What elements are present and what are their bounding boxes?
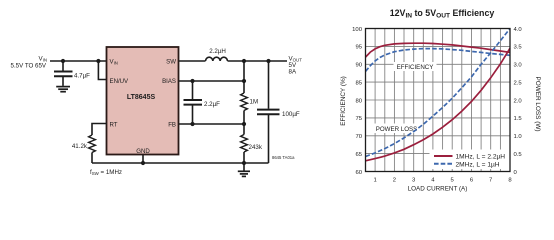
legend box bbox=[430, 150, 510, 170]
svg-text:2.2µH: 2.2µH bbox=[209, 48, 226, 55]
capacitor C2 2.2uF bbox=[184, 81, 221, 124]
wire FB bbox=[179, 123, 245, 125]
svg-text:8: 8 bbox=[508, 177, 512, 183]
svg-text:GND: GND bbox=[136, 148, 150, 155]
svg-text:243k: 243k bbox=[249, 144, 263, 151]
legend entries bbox=[434, 154, 505, 169]
svg-text:2.2µF: 2.2µF bbox=[204, 101, 220, 108]
chart EFFICIENCY label bbox=[394, 62, 437, 71]
svg-text:1.0: 1.0 bbox=[514, 134, 523, 140]
svg-text:60: 60 bbox=[355, 170, 362, 176]
node junction output cap bbox=[266, 59, 270, 63]
curve power loss 2MHz dashed bbox=[366, 29, 511, 157]
axis bottom tick labels bbox=[373, 177, 512, 183]
svg-text:12VIN to 5VOUT Efficiency: 12VIN to 5VOUT Efficiency bbox=[390, 8, 495, 20]
wire resistor to ground rail bbox=[91, 153, 93, 164]
node junction EN/UV tie to VIN bbox=[96, 59, 100, 63]
resistor R2 243k bbox=[241, 135, 263, 153]
chart frame bbox=[366, 29, 511, 172]
node junction BIAS cap bbox=[190, 79, 194, 83]
svg-text:LT8645S: LT8645S bbox=[127, 94, 156, 101]
svg-text:4.7µF: 4.7µF bbox=[74, 73, 90, 80]
svg-text:90: 90 bbox=[355, 63, 362, 69]
wire ground rail bbox=[92, 162, 269, 164]
svg-text:EN/UV: EN/UV bbox=[110, 78, 130, 85]
svg-text:POWER LOSS: POWER LOSS bbox=[376, 126, 418, 133]
axis right tick labels bbox=[514, 27, 523, 176]
svg-text:2: 2 bbox=[393, 177, 396, 183]
svg-text:100µF: 100µF bbox=[282, 111, 300, 118]
svg-text:75: 75 bbox=[355, 116, 362, 122]
wire FB node down bbox=[243, 124, 245, 135]
svg-text:80: 80 bbox=[355, 98, 362, 104]
svg-text:6: 6 bbox=[470, 177, 474, 183]
resistor R1 1M bbox=[241, 93, 259, 111]
svg-text:100: 100 bbox=[352, 27, 363, 33]
svg-text:fSW = 1MHz: fSW = 1MHz bbox=[90, 169, 122, 176]
op-amp U1 LT8645S box bbox=[107, 47, 179, 155]
svg-text:3: 3 bbox=[412, 177, 416, 183]
wire 1M to FB node bbox=[243, 111, 245, 125]
axis left tick labels bbox=[352, 27, 363, 176]
capacitor C1 4.7uF bbox=[54, 61, 90, 86]
ground rail symbol bbox=[238, 163, 250, 176]
node VOUT output label bbox=[289, 56, 303, 76]
node junction rail ground bbox=[242, 161, 246, 165]
node junction at input cap bbox=[61, 59, 65, 63]
chart POWER LOSS label bbox=[375, 124, 420, 134]
node junction divider top bbox=[242, 59, 246, 63]
inductor L1 2.2uH bbox=[206, 48, 228, 61]
resistor R3 41.2k bbox=[72, 135, 96, 153]
node junction GND drop bbox=[141, 161, 145, 165]
svg-text:0.5: 0.5 bbox=[514, 152, 523, 158]
svg-text:SW: SW bbox=[166, 58, 176, 65]
curve efficiency 2MHz dashed bbox=[366, 49, 511, 72]
wire RT to resistor bbox=[92, 124, 107, 136]
curve efficiency 1MHz solid bbox=[366, 43, 511, 57]
svg-text:RT: RT bbox=[110, 122, 118, 129]
svg-text:FB: FB bbox=[168, 122, 176, 129]
chart gridlines bbox=[366, 29, 511, 172]
svg-text:2.5: 2.5 bbox=[514, 80, 523, 86]
svg-text:LOAD CURRENT (A): LOAD CURRENT (A) bbox=[408, 185, 468, 192]
svg-text:1: 1 bbox=[373, 177, 376, 183]
svg-text:2MHz, L = 1µH: 2MHz, L = 1µH bbox=[456, 161, 500, 168]
svg-text:EFFICIENCY: EFFICIENCY bbox=[397, 64, 434, 71]
svg-text:0: 0 bbox=[514, 170, 518, 176]
curve power loss 1MHz solid bbox=[366, 48, 511, 161]
svg-text:41.2k: 41.2k bbox=[72, 143, 88, 150]
svg-text:95: 95 bbox=[355, 45, 362, 51]
svg-text:3.5: 3.5 bbox=[514, 45, 523, 51]
wire BIAS to divider bbox=[179, 80, 245, 82]
node junction BIAS divider bbox=[242, 79, 246, 83]
node VIN input label bbox=[11, 56, 48, 70]
svg-text:1M: 1M bbox=[250, 99, 259, 106]
wire 243k to rail bbox=[243, 152, 245, 163]
ground input cap bbox=[56, 87, 70, 92]
svg-text:7: 7 bbox=[489, 177, 492, 183]
wire divider vertical bbox=[243, 61, 245, 93]
wire inductor to VOUT bbox=[228, 60, 288, 62]
node junction FB divider bbox=[242, 122, 246, 126]
svg-text:8A: 8A bbox=[289, 69, 297, 76]
svg-text:5: 5 bbox=[451, 177, 455, 183]
svg-text:4.0: 4.0 bbox=[514, 27, 523, 33]
wire GND pin drop bbox=[142, 155, 144, 164]
svg-text:POWER LOSS (W): POWER LOSS (W) bbox=[534, 76, 541, 131]
wire SW to inductor bbox=[179, 60, 206, 62]
svg-text:65: 65 bbox=[355, 152, 362, 158]
svg-text:EFFICIENCY (%): EFFICIENCY (%) bbox=[340, 76, 347, 126]
svg-text:1.5: 1.5 bbox=[514, 116, 523, 122]
svg-text:5.5V TO 65V: 5.5V TO 65V bbox=[11, 63, 47, 70]
capacitor C3 100uF bbox=[257, 61, 300, 163]
node junction FB cap bbox=[190, 122, 194, 126]
wire EN/UV tie bbox=[98, 61, 106, 80]
svg-text:3.0: 3.0 bbox=[514, 63, 523, 69]
svg-text:1MHz, L = 2.2µH: 1MHz, L = 2.2µH bbox=[456, 154, 506, 161]
svg-text:2.0: 2.0 bbox=[514, 98, 523, 104]
svg-text:85: 85 bbox=[355, 80, 362, 86]
svg-text:70: 70 bbox=[355, 134, 362, 140]
svg-text:8645 TA01a: 8645 TA01a bbox=[272, 155, 295, 160]
wire VIN input rail bbox=[50, 60, 107, 62]
svg-text:BIAS: BIAS bbox=[162, 78, 176, 85]
svg-text:4: 4 bbox=[431, 177, 435, 183]
